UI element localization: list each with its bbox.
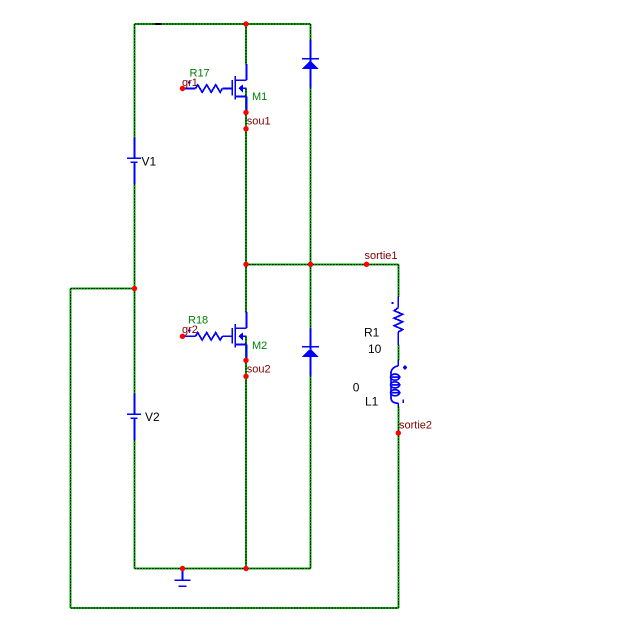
node sortie1 junction	[364, 262, 369, 267]
battery V2	[127, 394, 141, 441]
svg-text:10: 10	[368, 342, 382, 356]
wire L1 to bottom outer corner	[397, 407, 399, 609]
wire left rail V1 to node corner	[134, 184, 136, 289]
node sou2 junction lower	[243, 374, 248, 379]
wire middle rail mid bus to M2 drain	[245, 264, 247, 312]
node sou2 junction upper	[243, 358, 248, 363]
wire between R1 and L1	[397, 345, 399, 361]
svg-text:0: 0	[353, 380, 360, 394]
wire diode rail top	[310, 24, 312, 40]
svg-text:sou2: sou2	[247, 363, 271, 375]
node junction outer left	[132, 286, 137, 291]
node gr1 junction	[180, 86, 185, 91]
resistor R18	[184, 329, 232, 340]
node gr2 junction	[180, 334, 185, 339]
node ground junction	[180, 566, 185, 571]
node sortie2 junction	[396, 430, 401, 435]
resistor R1	[392, 297, 403, 345]
svg-text:R1: R1	[364, 325, 380, 339]
wire middle rail top (top bus to M1 drain)	[245, 24, 247, 65]
svg-text:V2: V2	[145, 410, 160, 424]
wire middle rail M2 source to bottom bus	[245, 336, 247, 568]
inductor L1	[391, 361, 407, 407]
battery V1	[127, 138, 141, 185]
node junction mid bus left	[243, 262, 248, 267]
svg-text:sortie1: sortie1	[365, 250, 398, 262]
wire diode rail D1 to D2	[310, 88, 312, 329]
wire left rail corner to V2	[134, 289, 136, 394]
wire black segment on top bus	[155, 23, 162, 25]
mosfet M2	[232, 312, 246, 358]
wire left rail V2 to bottom bus	[134, 440, 136, 569]
resistor R17	[184, 82, 232, 93]
wire outer bottom	[71, 607, 399, 609]
svg-text:M2: M2	[252, 340, 267, 352]
diode D1	[302, 40, 319, 88]
mosfet M1	[232, 64, 246, 111]
svg-text:V1: V1	[142, 154, 157, 168]
wire diode rail D2 to bottom bus	[310, 376, 312, 569]
svg-text:L1: L1	[365, 395, 379, 409]
wire load branch to R1	[397, 264, 399, 297]
node sou1 junction upper	[243, 110, 248, 115]
wire mid bus sortie1	[246, 263, 398, 265]
wire left rail upper (top bus to V1)	[134, 24, 136, 138]
diode D2	[302, 329, 319, 376]
node junction mid bus diode rail	[308, 262, 313, 267]
node junction bottom bus M2	[243, 566, 248, 571]
node sou1 junction lower	[243, 126, 248, 131]
svg-text:sou1: sou1	[247, 116, 271, 128]
wire bottom bus	[135, 568, 311, 570]
svg-text:M1: M1	[252, 91, 267, 103]
ground	[174, 569, 190, 587]
node junction top bus	[243, 21, 248, 26]
svg-text:gr2: gr2	[182, 324, 198, 336]
wire outer to left rail	[71, 288, 135, 290]
wire middle rail M1 source to mid bus	[245, 88, 247, 264]
wire outer left	[70, 289, 72, 609]
wire top bus	[135, 23, 311, 25]
svg-text:sortie2: sortie2	[399, 420, 432, 432]
